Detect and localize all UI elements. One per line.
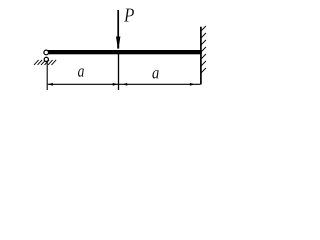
ground hatching of left support <box>34 60 56 65</box>
extension line below left support <box>46 62 48 90</box>
dimension line <box>48 83 201 85</box>
dimension arrowhead mid-right (points left) <box>123 83 127 86</box>
label a (right span) <box>152 70 158 78</box>
label a (left span) <box>78 68 84 76</box>
roller circle of left support <box>44 57 48 61</box>
dimension arrowhead left (points left) <box>48 83 53 86</box>
dimension arrowhead mid-left (points right) <box>113 83 118 86</box>
dimension arrowhead right (points right) <box>190 83 195 86</box>
wall (fixed support line at right) <box>200 27 202 85</box>
force P arrow shaft <box>117 10 119 41</box>
extension line below load point <box>118 54 120 90</box>
force P arrowhead <box>116 37 120 49</box>
label P <box>124 9 134 22</box>
hinge circle of left support <box>44 50 49 55</box>
wall hatching <box>201 26 206 73</box>
beam (thick horizontal member) <box>48 50 202 54</box>
